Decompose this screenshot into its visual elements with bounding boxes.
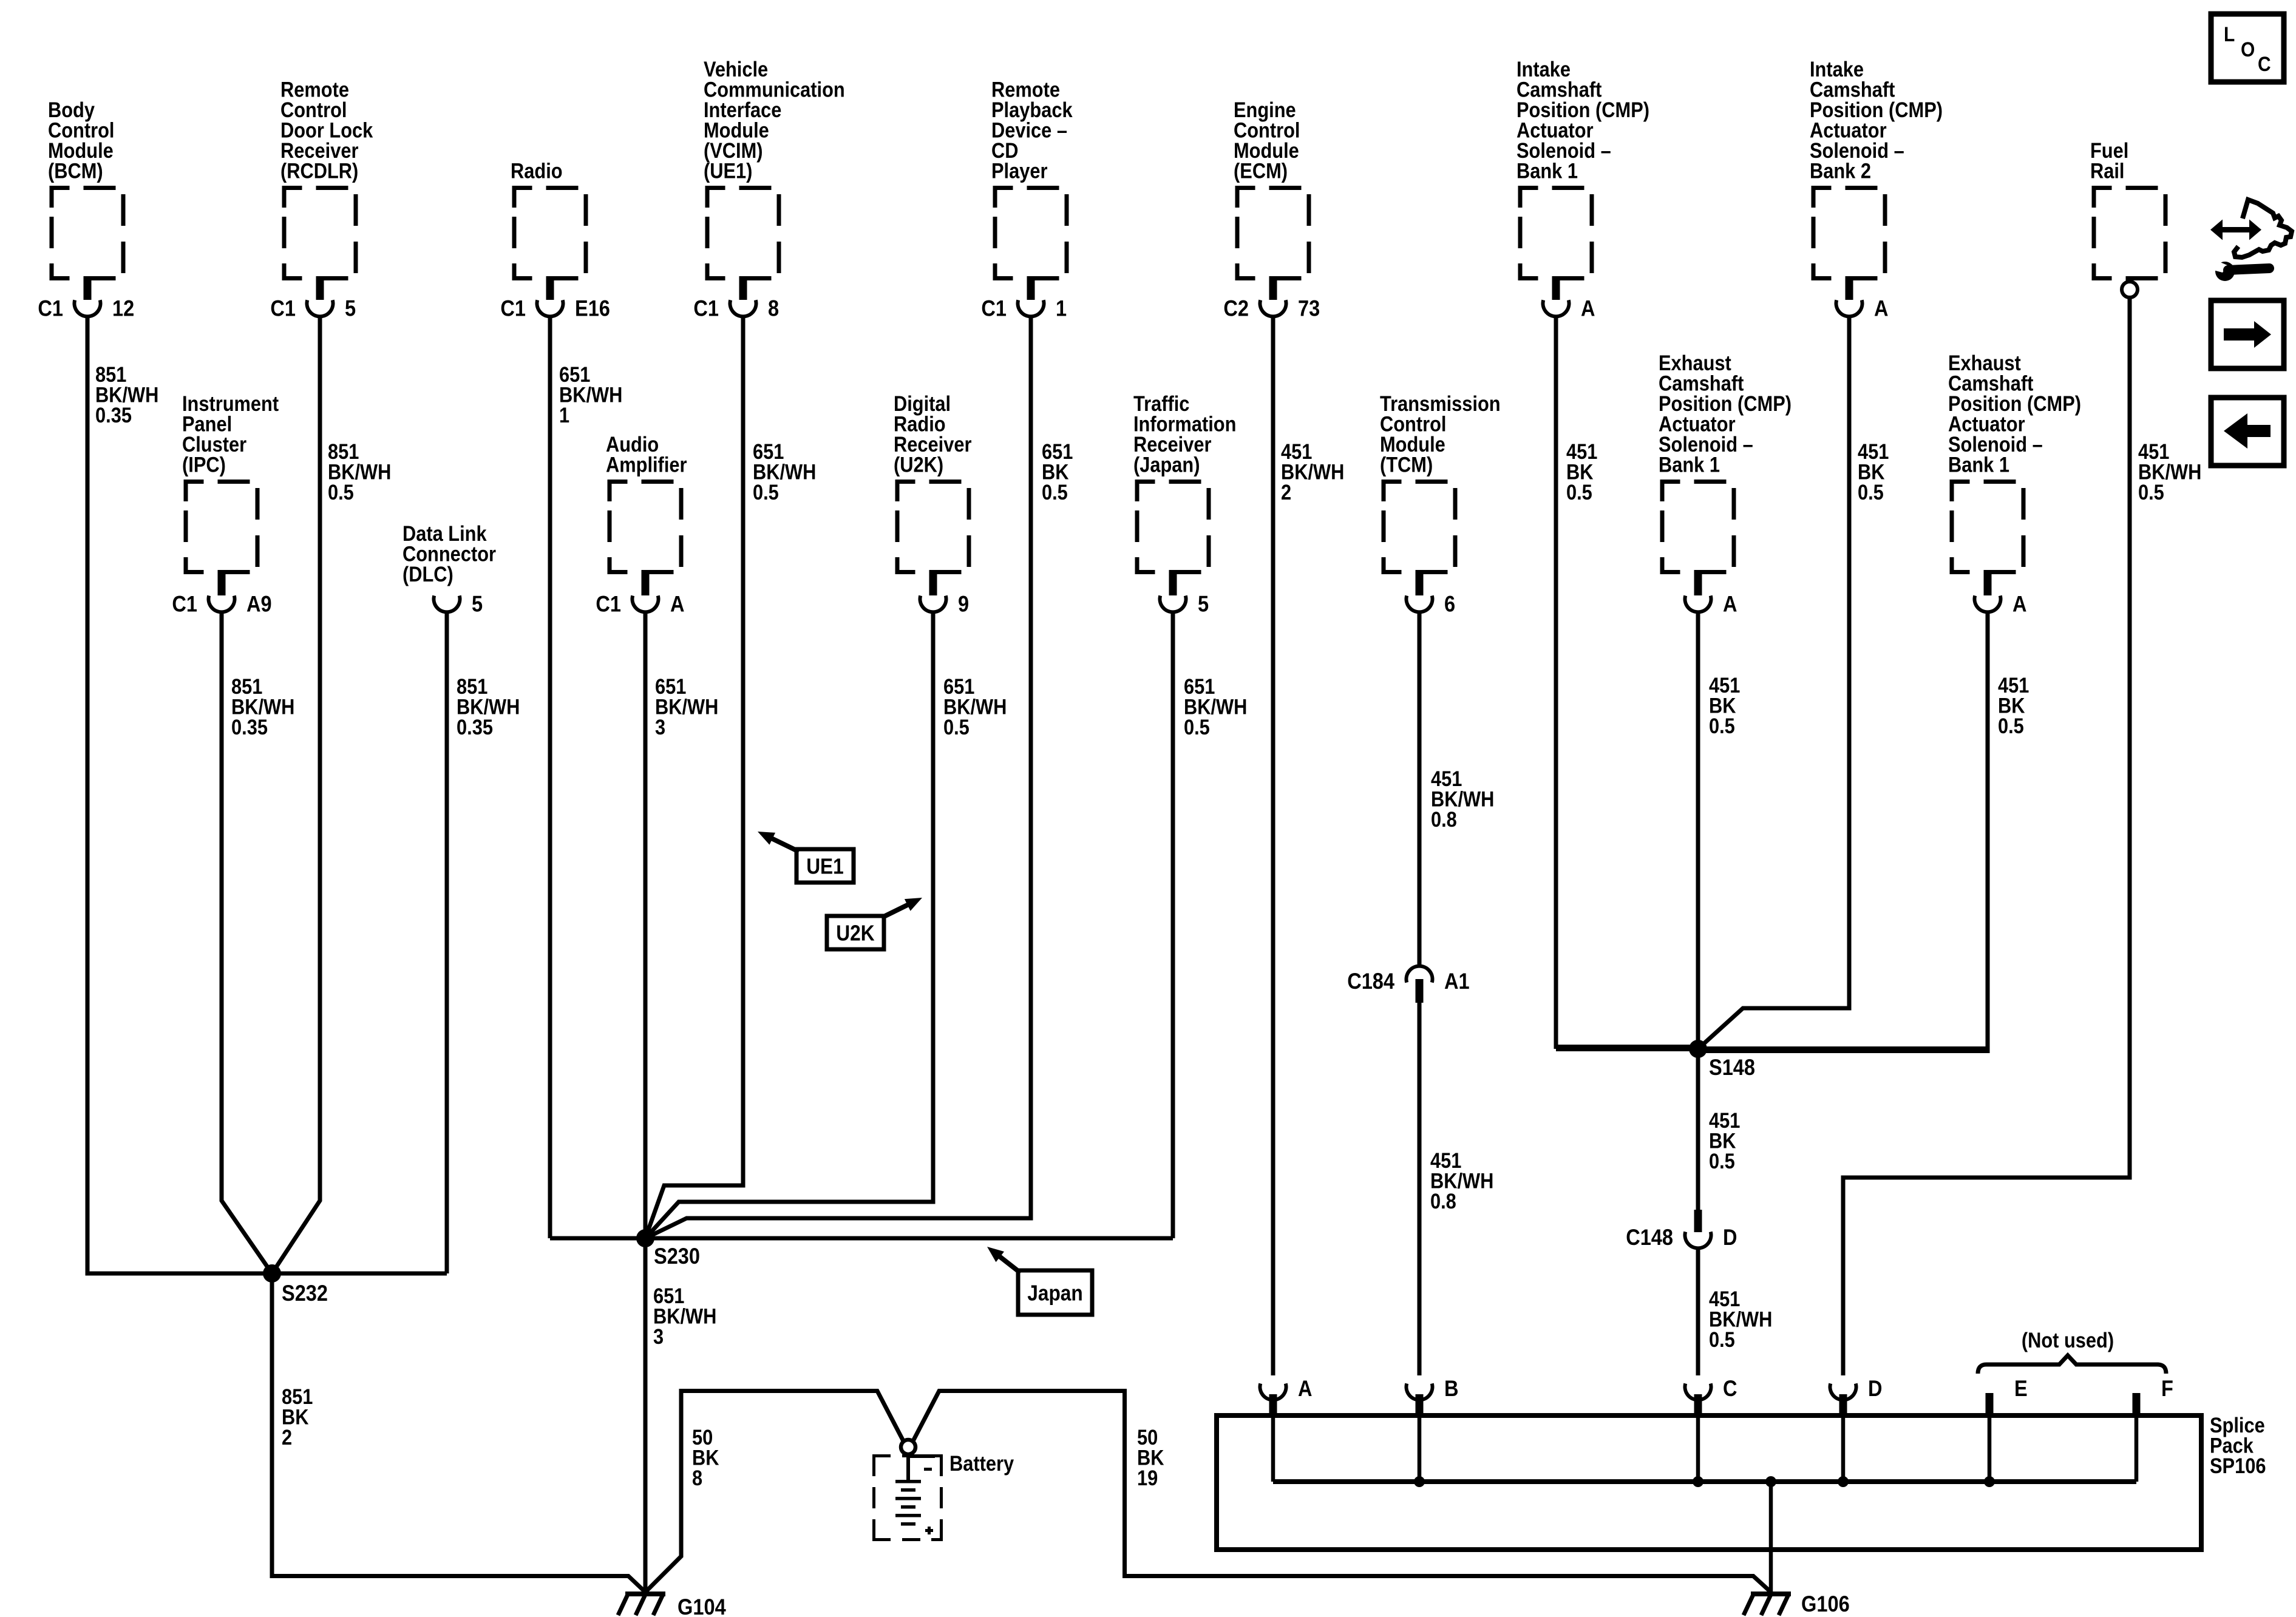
module Exhaust CMP Actuator Solenoid Bank 1 (right) with connector pin A [1948,351,2081,617]
label 851 BK 2 on S232 ground wire [282,1385,313,1449]
wire 651 BK/WH 1 from Radio C1-E16 down to S230 level [548,316,552,1238]
module Remote Control Door Lock Receiver (RCDLR) with connector C1 pin 5 [270,78,373,321]
svg-text:C1: C1 [38,296,63,321]
module Data Link Connector (DLC) pin 5 [402,522,496,617]
connector C148 pin D [1626,1210,1737,1250]
svg-text:0.5: 0.5 [1858,481,1884,504]
wire 851 BK/WH 0.35 from BCM C1-12 down [86,316,90,1273]
svg-text:Bank 2: Bank 2 [1810,160,1871,183]
wire segment S230 horizontal rail [550,1236,1173,1241]
callout U2K arrow to Digital Radio Receiver wire [827,898,922,949]
wire 651 BK 0.5 from CD Player C1-1 to S230 [645,316,1031,1238]
wire 651 BK/WH 0.5 from Digital Radio Receiver pin 9 to S230 [645,612,933,1238]
svg-text:1: 1 [1056,296,1067,321]
module Fuel Rail with ring terminal [2090,139,2168,297]
label 851 BK/WH 0.5 on RCDLR wire [328,440,391,504]
label 451 BK/WH 0.5 on Fuel Rail wire [2138,440,2201,504]
svg-text:D: D [1868,1376,1883,1401]
svg-text:0.5: 0.5 [1709,714,1735,738]
svg-text:(DLC): (DLC) [402,563,453,586]
svg-text:(ECM): (ECM) [1234,160,1288,183]
svg-text:0.35: 0.35 [95,404,132,427]
svg-text:0.35: 0.35 [231,716,268,739]
wire 851 BK 2 from S232 down to G104 [272,1273,645,1592]
label 451 BK/WH 0.8 on TCM wire upper [1431,767,1494,832]
ground G104 [618,1592,726,1617]
(Not used) bracket over pins E and F [1978,1329,2166,1374]
svg-text:Battery: Battery [949,1452,1014,1476]
svg-text:C: C [1723,1376,1737,1401]
svg-text:UE1: UE1 [806,854,844,879]
label Splice Pack SP106 [2210,1414,2266,1478]
svg-text:G106: G106 [1801,1592,1850,1616]
wire 50 BK 8 from G104 up to battery negative loop [646,1391,903,1592]
svg-text:3: 3 [653,1325,664,1349]
connector C184 pin A1 on TCM ground wire [1347,966,1469,1003]
svg-text:0.8: 0.8 [1431,808,1457,832]
battery [872,1440,1014,1541]
wire 651 BK/WH 3 from Audio Amplifier C1-A to S230 [644,612,648,1238]
module Remote Playback Device CD Player with connector C1 pin 1 [981,78,1073,321]
svg-text:5: 5 [472,592,483,617]
module Vehicle Communication Interface Module (VCIM) with connector C1 pin 8 [693,58,844,321]
splice pack G106 tap [1765,1476,1776,1592]
wire segment S148 horizontal tie [1556,1046,1988,1051]
wire 451 BK 0.5 from Intake CMP Bank2 pin A to S148 [1698,316,1849,1049]
svg-text:(Not used): (Not used) [2022,1329,2114,1352]
callout Japan arrow to Traffic receiver wire [987,1247,1092,1315]
svg-text:O: O [2241,38,2255,61]
svg-text:B: B [1444,1376,1459,1401]
svg-text:G104: G104 [678,1595,726,1617]
svg-text:SP106: SP106 [2210,1454,2266,1478]
label 451 BK 0.5 on S148 to C148 wire [1709,1109,1740,1173]
svg-text:0.5: 0.5 [1042,481,1068,504]
right arrow navigation box [2211,300,2284,368]
wire 651 BK/WH 0.5 from Traffic Information Receiver pin 5 to S230 [1171,612,1175,1238]
svg-text:A9: A9 [246,592,272,617]
wire 451 BK/WH 0.8 from TCM pin 6 down to C184 [1418,612,1422,967]
svg-text:(IPC): (IPC) [182,453,226,477]
label 651 BK/WH 3 on S230 ground wire [653,1284,716,1349]
wire 851 BK/WH 0.5 from RCDLR C1-5 down [272,316,320,1273]
wire 651 BK/WH 3 from S230 down to G104 [644,1238,648,1592]
svg-text:(TCM): (TCM) [1380,453,1433,477]
module Traffic Information Receiver (Japan) with connector pin 5 [1133,392,1236,617]
module Instrument Panel Cluster (IPC) with connector C1 pin A9 [172,392,279,617]
module Transmission Control Module (TCM) with connector pin 6 [1380,392,1501,617]
wire 451 BK 0.5 from Intake CMP Bank1 pin A to S148 [1556,316,1698,1047]
svg-text:C1: C1 [596,592,621,617]
wire 851 BK/WH 0.35 from DLC pin 5 down to S232 rail [445,612,449,1273]
label 451 BK/WH 0.5 on C148 to splice wire [1709,1287,1772,1352]
svg-text:S148: S148 [1709,1055,1755,1080]
svg-text:(Japan): (Japan) [1133,453,1200,477]
wire 451 BK/WH 0.8 from C184 down to splice pack pin B [1418,1002,1422,1375]
splice pack pin A [1260,1376,1313,1482]
svg-text:0.5: 0.5 [1998,714,2024,738]
svg-text:C148: C148 [1626,1225,1673,1250]
svg-text:E: E [2014,1376,2028,1401]
svg-text:Bank 1: Bank 1 [1948,453,2009,477]
svg-text:F: F [2161,1376,2173,1401]
svg-text:S232: S232 [282,1281,328,1306]
left arrow navigation box [2211,398,2284,466]
splice pack pin F [2133,1376,2173,1482]
module Intake CMP Actuator Solenoid Bank 2 with connector pin A [1810,58,1943,321]
module Intake CMP Actuator Solenoid Bank 1 with connector pin A [1517,58,1649,321]
svg-text:0.5: 0.5 [328,481,354,504]
svg-text:C2: C2 [1223,296,1249,321]
svg-text:0.5: 0.5 [753,481,779,504]
module Digital Radio Receiver (U2K) with connector pin 9 [894,392,972,617]
svg-text:C1: C1 [693,296,719,321]
svg-text:8: 8 [768,296,779,321]
splice pack pin B [1407,1376,1459,1487]
diagnostic tool icon (arrows and wrench) [2209,200,2292,281]
junction S232 [263,1264,281,1283]
wire 451 BK 0.5 from Exhaust CMP (right) pin A to S148 [1696,612,1988,1051]
svg-text:C1: C1 [981,296,1007,321]
svg-text:C1: C1 [270,296,296,321]
svg-text:8: 8 [692,1466,702,1490]
svg-text:12: 12 [112,296,134,321]
svg-text:C: C [2258,53,2271,76]
svg-text:2: 2 [1281,481,1291,504]
label 651 BK/WH 0.5 on Traffic receiver wire [1184,675,1247,739]
wire 651 BK/WH 0.5 from VCIM C1-8 to S230 [645,316,743,1238]
svg-text:0.5: 0.5 [1709,1328,1735,1352]
label 651 BK/WH 3 on Audio Amplifier wire [655,675,718,739]
svg-text:5: 5 [1198,592,1209,617]
svg-text:A: A [1581,296,1595,321]
ground G106 [1744,1592,1850,1616]
wire 451 BK/WH 0.5 from Fuel Rail to splice pack pin D [1843,297,2130,1375]
splice pack pin C [1685,1376,1737,1487]
svg-text:6: 6 [1444,592,1455,617]
svg-text:L: L [2224,23,2235,46]
svg-text:5: 5 [345,296,356,321]
label 851 BK/WH 0.35 on DLC wire [457,675,520,739]
svg-text:0.35: 0.35 [457,716,493,739]
label 651 BK/WH 1 on Radio wire [559,363,622,427]
wire segment BCM to S232 horizontal [86,1272,447,1276]
splice pack pin D [1830,1376,1883,1487]
label 50 BK 8 on battery ground wire left [692,1426,719,1490]
svg-text:S230: S230 [654,1244,700,1269]
svg-text:Amplifier: Amplifier [606,453,687,477]
svg-text:0.5: 0.5 [1566,481,1592,504]
svg-text:Bank 1: Bank 1 [1517,160,1578,183]
label 851 BK/WH 0.35 on BCM wire [95,363,158,427]
svg-text:Player: Player [991,160,1048,183]
svg-text:0.5: 0.5 [943,716,970,739]
module Exhaust CMP Actuator Solenoid Bank 1 (left) with connector pin A [1659,351,1792,617]
svg-text:3: 3 [655,716,665,739]
svg-text:C1: C1 [172,592,197,617]
svg-text:A: A [2012,592,2027,617]
svg-text:E16: E16 [575,296,610,321]
svg-text:1: 1 [559,404,569,427]
svg-text:A: A [1723,592,1737,617]
label 651 BK/WH 0.5 on VCIM wire [753,440,816,504]
module Audio Amplifier with connector C1 pin A [596,433,687,617]
module Body Control Module (BCM) with connector C1 pin 12 [38,98,134,321]
module Engine Control Module (ECM) with connector C2 pin 73 [1223,98,1320,321]
svg-text:Bank 1: Bank 1 [1659,453,1720,477]
svg-text:A: A [1874,296,1889,321]
svg-text:0.8: 0.8 [1430,1190,1456,1213]
svg-text:Radio: Radio [511,160,563,183]
label 451 BK/WH 2 on ECM wire [1281,440,1344,504]
label 451 BK 0.5 on Intake Bank2 wire [1858,440,1889,504]
label 451 BK 0.5 on Exhaust right wire [1998,674,2029,738]
svg-text:0.5: 0.5 [2138,481,2164,504]
label 851 BK/WH 0.35 on IPC wire [231,675,294,739]
LOC legend box [2211,14,2284,82]
label 651 BK 0.5 on CD Player wire [1042,440,1073,504]
module Radio with connector C1 pin E16 [500,160,610,321]
wire 451 BK/WH 2 from ECM C2-73 down to splice pack pin A [1271,316,1275,1375]
svg-text:2: 2 [282,1426,292,1449]
splice pack SP106 outline [1217,1415,2201,1550]
svg-text:(RCDLR): (RCDLR) [280,160,358,183]
svg-text:0.5: 0.5 [1709,1150,1735,1173]
svg-text:A: A [670,592,685,617]
wire 451 BK/WH 0.5 from C148 down to splice pack pin C [1696,1247,1700,1375]
wire 50 BK 19 from battery loop down to G106 [913,1391,1770,1592]
label 451 BK 0.5 on Intake Bank1 wire [1566,440,1597,504]
svg-text:A: A [1298,1376,1313,1401]
svg-text:(U2K): (U2K) [894,453,943,477]
junction S148 [1689,1040,1707,1058]
svg-text:19: 19 [1137,1466,1158,1490]
svg-text:C184: C184 [1347,969,1394,994]
svg-text:(UE1): (UE1) [704,160,752,183]
svg-text:0.5: 0.5 [1184,716,1210,739]
svg-text:U2K: U2K [836,921,874,946]
svg-text:Rail: Rail [2090,160,2125,183]
svg-text:Japan: Japan [1027,1281,1083,1306]
callout UE1 arrow to VCIM wire [758,832,854,883]
label 50 BK 19 on battery ground wire right [1137,1426,1164,1490]
svg-text:D: D [1723,1225,1737,1250]
label 451 BK/WH 0.8 on TCM wire lower [1430,1149,1493,1213]
label 651 BK/WH 0.5 on U2K wire [943,675,1007,739]
wire 851 BK/WH 0.35 from IPC C1-A9 to S232 [222,612,272,1273]
splice pack bus bar [1273,1479,2136,1484]
label 451 BK 0.5 on Exhaust left wire [1709,674,1740,738]
svg-text:73: 73 [1298,296,1320,321]
svg-text:A1: A1 [1444,969,1470,994]
splice pack pin E [1984,1376,2028,1487]
svg-text:9: 9 [958,592,969,617]
svg-text:(BCM): (BCM) [48,160,103,183]
junction S230 [636,1229,654,1247]
svg-text:C1: C1 [500,296,526,321]
wire 451 BK 0.5 from Exhaust CMP pin A through S148 down to C148 [1696,612,1700,1210]
